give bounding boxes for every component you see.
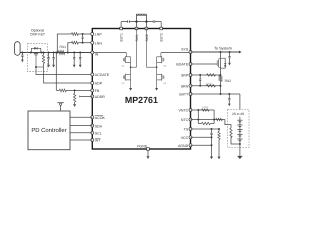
svg-text:SDA: SDA xyxy=(95,124,103,128)
svg-text:AGND: AGND xyxy=(178,144,189,148)
svg-text:PD Controller: PD Controller xyxy=(31,127,66,134)
svg-text:VCC: VCC xyxy=(181,136,189,140)
svg-text:SRP: SRP xyxy=(181,74,189,78)
svg-text:MP2761: MP2761 xyxy=(125,95,158,105)
svg-text:SCL: SCL xyxy=(95,132,102,136)
svg-text:VNTC: VNTC xyxy=(179,109,189,113)
svg-text:To System: To System xyxy=(214,47,232,51)
svg-text:BATT: BATT xyxy=(179,93,189,97)
svg-text:ACOK: ACOK xyxy=(95,116,106,120)
svg-text:SRN: SRN xyxy=(181,84,189,88)
svg-text:SW1: SW1 xyxy=(135,34,139,41)
svg-text:FB: FB xyxy=(95,89,100,93)
svg-text:BST2: BST2 xyxy=(160,33,164,42)
svg-text:LNN: LNN xyxy=(95,41,103,45)
svg-text:LNP: LNP xyxy=(95,33,103,37)
svg-text:NTC: NTC xyxy=(181,118,189,122)
svg-text:Optional: Optional xyxy=(31,28,44,32)
svg-text:ADDR: ADDR xyxy=(95,95,105,99)
svg-text:10mΩ: 10mΩ xyxy=(206,82,213,85)
svg-text:2S to 4S: 2S to 4S xyxy=(232,112,244,116)
svg-text:SW2: SW2 xyxy=(145,34,149,41)
svg-text:BST1: BST1 xyxy=(119,33,123,42)
svg-text:RS2: RS2 xyxy=(225,79,232,83)
svg-text:SYS: SYS xyxy=(181,47,189,51)
svg-text:IN: IN xyxy=(95,53,99,57)
svg-text:ADP: ADP xyxy=(95,82,103,86)
svg-text:TS: TS xyxy=(184,128,189,132)
svg-text:INT: INT xyxy=(95,139,102,143)
svg-text:RS1: RS1 xyxy=(59,45,66,49)
svg-text:OVP FET: OVP FET xyxy=(30,33,46,37)
svg-text:ACGATE: ACGATE xyxy=(95,73,110,77)
svg-text:BGATE: BGATE xyxy=(176,63,188,67)
svg-text:PGND: PGND xyxy=(137,145,147,149)
svg-text:10kΩ: 10kΩ xyxy=(202,106,208,109)
